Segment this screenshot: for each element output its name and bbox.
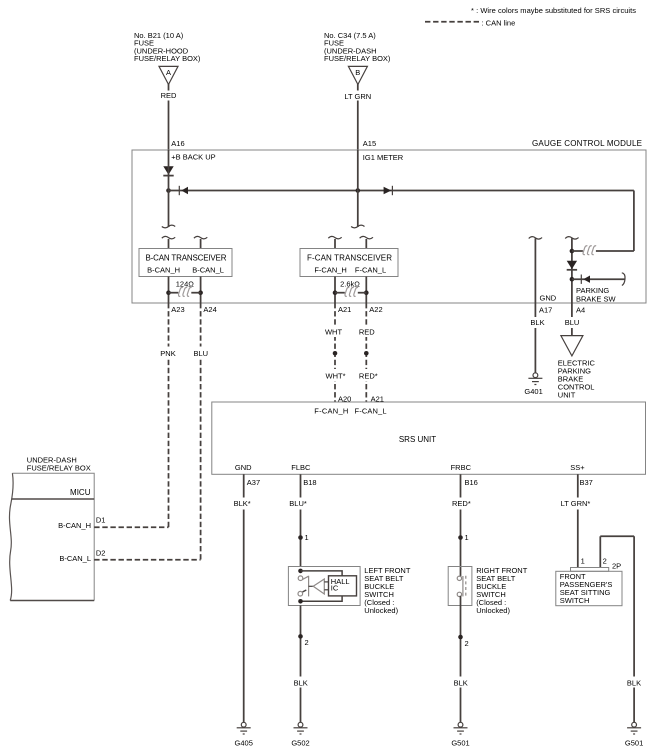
svg-text:* : Wire colors maybe substitu: * : Wire colors maybe substituted for SR…: [471, 6, 636, 15]
svg-text:LT GRN*: LT GRN*: [561, 499, 591, 508]
svg-text:FLBC: FLBC: [291, 463, 311, 472]
svg-text:1: 1: [581, 557, 585, 566]
svg-text:F-CAN TRANSCEIVER: F-CAN TRANSCEIVER: [307, 253, 392, 262]
svg-text:A37: A37: [247, 478, 260, 487]
svg-text:RED: RED: [359, 327, 375, 336]
svg-text:Unlocked): Unlocked): [364, 606, 398, 615]
svg-text:BLU*: BLU*: [289, 499, 307, 508]
svg-text:RED*: RED*: [452, 499, 471, 508]
svg-text:F-CAN_H: F-CAN_H: [314, 406, 348, 415]
svg-text:WHT*: WHT*: [326, 371, 346, 380]
svg-text:B-CAN_L: B-CAN_L: [192, 265, 224, 274]
svg-text:A24: A24: [203, 305, 216, 314]
svg-text:Unlocked): Unlocked): [476, 606, 510, 615]
svg-text:FUSE/RELAY BOX: FUSE/RELAY BOX: [27, 463, 91, 472]
svg-text:B-CAN_H: B-CAN_H: [58, 521, 91, 530]
svg-text:GND: GND: [235, 463, 252, 472]
svg-text:IC: IC: [331, 584, 339, 593]
svg-text:RED: RED: [161, 91, 177, 100]
svg-text:: CAN line: : CAN line: [482, 19, 516, 28]
svg-text:BLK*: BLK*: [234, 499, 251, 508]
svg-text:1: 1: [465, 533, 469, 542]
svg-text:GND: GND: [540, 294, 557, 303]
svg-text:B: B: [355, 68, 360, 77]
svg-text:B16: B16: [465, 478, 478, 487]
svg-text:B18: B18: [303, 478, 316, 487]
svg-text:WHT: WHT: [325, 327, 342, 336]
svg-text:G401: G401: [524, 387, 542, 396]
svg-text:B-CAN_L: B-CAN_L: [59, 554, 91, 563]
svg-text:FUSE/RELAY BOX): FUSE/RELAY BOX): [324, 54, 391, 63]
svg-text:2: 2: [603, 557, 607, 566]
svg-text:BLK: BLK: [530, 318, 544, 327]
svg-text:F-CAN_L: F-CAN_L: [355, 265, 386, 274]
svg-text:LT GRN: LT GRN: [344, 92, 371, 101]
svg-text:F-CAN_L: F-CAN_L: [355, 406, 387, 415]
svg-text:A: A: [166, 68, 171, 77]
svg-text:GAUGE CONTROL MODULE: GAUGE CONTROL MODULE: [532, 139, 642, 148]
svg-text:BLK: BLK: [627, 679, 641, 688]
svg-text:+B BACK UP: +B BACK UP: [171, 152, 215, 161]
svg-text:SRS UNIT: SRS UNIT: [399, 435, 436, 444]
svg-text:G502: G502: [291, 738, 309, 747]
svg-text:A23: A23: [171, 305, 184, 314]
svg-text:B-CAN_H: B-CAN_H: [147, 265, 180, 274]
svg-text:PNK: PNK: [160, 349, 175, 358]
svg-text:UNIT: UNIT: [558, 390, 576, 399]
svg-text:BLU: BLU: [194, 349, 209, 358]
svg-text:2: 2: [465, 639, 469, 648]
svg-text:IG1 METER: IG1 METER: [363, 153, 404, 162]
svg-text:A22: A22: [369, 305, 382, 314]
svg-text:G501: G501: [625, 738, 643, 747]
svg-text:RED*: RED*: [359, 371, 378, 380]
svg-text:G501: G501: [451, 738, 469, 747]
svg-text:A21: A21: [338, 305, 351, 314]
svg-text:D2: D2: [96, 549, 106, 558]
svg-text:2P: 2P: [612, 562, 621, 571]
svg-text:G405: G405: [235, 738, 253, 747]
svg-text:SWITCH: SWITCH: [560, 596, 590, 605]
svg-text:BLK: BLK: [294, 679, 308, 688]
svg-text:B37: B37: [580, 478, 593, 487]
svg-text:D1: D1: [96, 516, 106, 525]
svg-text:2: 2: [305, 638, 309, 647]
svg-text:F-CAN_H: F-CAN_H: [314, 265, 347, 274]
svg-text:A17: A17: [539, 306, 552, 315]
svg-text:SS+: SS+: [570, 463, 585, 472]
svg-text:MICU: MICU: [70, 488, 91, 497]
svg-text:A16: A16: [171, 139, 184, 148]
svg-text:A15: A15: [363, 139, 376, 148]
svg-text:B-CAN TRANSCEIVER: B-CAN TRANSCEIVER: [146, 253, 227, 262]
svg-text:FUSE/RELAY BOX): FUSE/RELAY BOX): [134, 54, 201, 63]
svg-text:BRAKE SW: BRAKE SW: [576, 294, 617, 303]
svg-text:FRBC: FRBC: [451, 463, 472, 472]
svg-text:BLK: BLK: [454, 679, 468, 688]
svg-text:A4: A4: [576, 306, 585, 315]
svg-text:1: 1: [305, 533, 309, 542]
svg-text:BLU: BLU: [565, 318, 580, 327]
